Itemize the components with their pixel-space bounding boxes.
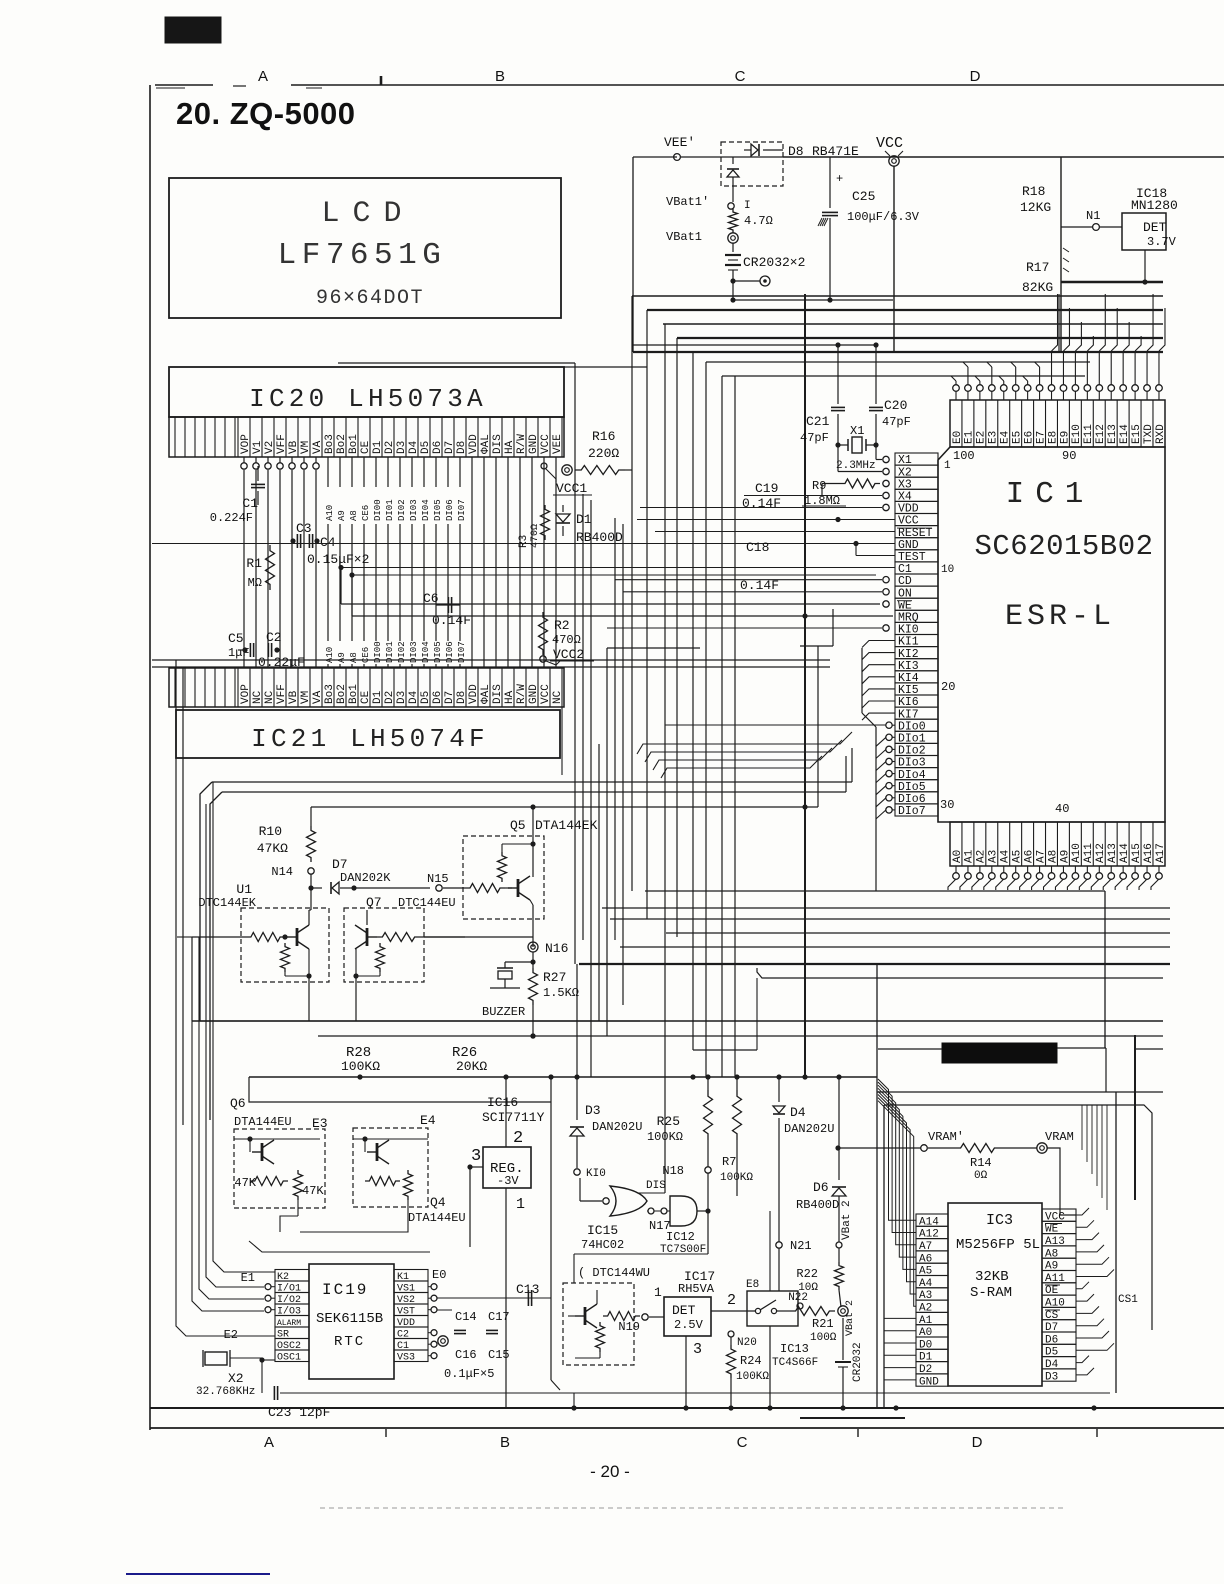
svg-text:0.22μF: 0.22μF [258, 655, 305, 670]
wire C13 riser [550, 1077, 552, 1380]
diode D1 RB400D [562, 505, 564, 512]
svg-text:0.15μF×2: 0.15μF×2 [307, 552, 369, 567]
svg-text:0.14F: 0.14F [432, 613, 471, 628]
svg-text:N1: N1 [1086, 209, 1100, 223]
svg-text:DAN202K: DAN202K [340, 871, 391, 885]
resistor R27 1.5Kohm [532, 962, 534, 968]
wire y363 feeder [338, 362, 575, 364]
svg-text:LF7651G: LF7651G [278, 238, 447, 273]
node VBat2 circle [836, 1242, 842, 1248]
svg-text:C16: C16 [455, 1348, 477, 1362]
svg-text:C14: C14 [455, 1310, 477, 1324]
wire TEST pin [855, 544, 857, 556]
svg-text:KI0: KI0 [586, 1168, 606, 1180]
real time clock IC19 SEK6115B body [309, 1264, 394, 1379]
svg-text:C25: C25 [852, 189, 875, 204]
svg-text:B: B [495, 68, 505, 85]
svg-text:VBat 2: VBat 2 [841, 1200, 853, 1240]
svg-text:DTC144EU: DTC144EU [398, 896, 456, 910]
svg-text:Q6: Q6 [230, 1096, 246, 1111]
svg-text:GND: GND [919, 1376, 939, 1388]
wire y648 jog [607, 647, 700, 649]
svg-text:4.7Ω: 4.7Ω [744, 214, 773, 228]
svg-text:96×64DOT: 96×64DOT [316, 287, 424, 310]
IC19 left pin boxes [275, 1270, 309, 1282]
svg-text:E1: E1 [241, 1271, 255, 1285]
svg-text:A10: A10 [325, 505, 335, 521]
IC1 top pin terminals [953, 385, 960, 392]
svg-text:DIo7: DIo7 [898, 805, 926, 818]
node N17 [648, 1208, 654, 1214]
svg-text:DIS: DIS [646, 1180, 666, 1192]
wire bold net vertical x805 [804, 294, 806, 1077]
capacitor C1 [257, 466, 259, 481]
svg-text:VRAM: VRAM [1045, 1130, 1074, 1144]
svg-text:82KG: 82KG [1022, 280, 1053, 295]
wire IC3 right pin feeders [1076, 1208, 1089, 1215]
svg-text:D3: D3 [1045, 1371, 1058, 1383]
wire top box bottom rail [633, 351, 1163, 353]
svg-text:100Ω: 100Ω [810, 1332, 837, 1344]
svg-text:220Ω: 220Ω [588, 446, 619, 461]
svg-text:C2: C2 [266, 630, 282, 645]
svg-text:32KB: 32KB [975, 1269, 1009, 1285]
svg-text:N14: N14 [271, 865, 293, 879]
wire main rail y1077 [249, 1076, 877, 1078]
wire vertical x1059 [1058, 294, 1060, 352]
wire bottom rail 2 bold [150, 1407, 1224, 1409]
svg-text:VBat 2: VBat 2 [845, 1300, 856, 1336]
svg-text:E2: E2 [224, 1328, 238, 1342]
svg-text:( DTC144WU: ( DTC144WU [578, 1266, 650, 1280]
svg-text:A8: A8 [349, 652, 359, 663]
svg-text:DET: DET [1143, 220, 1167, 235]
svg-text:IC1: IC1 [1006, 477, 1095, 512]
wire Q7 outputs [368, 936, 533, 938]
svg-text:C18: C18 [746, 540, 769, 555]
wire battery bottom [733, 299, 893, 301]
svg-text:R22: R22 [796, 1267, 818, 1281]
svg-text:R10: R10 [259, 824, 282, 839]
wire bottom of q-cluster [280, 1216, 298, 1232]
node N16 [528, 942, 538, 952]
wire A-bus horizontals below IC1 [602, 907, 1170, 909]
svg-text:47pF: 47pF [882, 415, 911, 429]
svg-text:R2: R2 [554, 618, 570, 633]
svg-text:DTA144EU: DTA144EU [234, 1115, 292, 1129]
net label VCC2 [540, 656, 546, 662]
svg-text:CR2032×2: CR2032×2 [743, 255, 805, 270]
svg-text:C3: C3 [296, 521, 312, 536]
wire KI pins staircase [861, 648, 863, 713]
node N18 [705, 1167, 711, 1173]
svg-text:VBat1': VBat1' [666, 195, 709, 209]
redaction bar [942, 1043, 1057, 1063]
svg-text:IC16: IC16 [487, 1095, 518, 1110]
svg-text:20KΩ: 20KΩ [456, 1059, 487, 1074]
wire DTC144WU collector [596, 1283, 598, 1290]
wire Q6 E-line [360, 1077, 430, 1092]
svg-text:DI03: DI03 [409, 499, 419, 521]
svg-text:M5256FP 5L: M5256FP 5L [956, 1237, 1040, 1253]
node N21 [776, 1242, 782, 1248]
svg-text:R16: R16 [592, 429, 615, 444]
svg-text:R3: R3 [518, 535, 530, 548]
svg-text:SC62015B02: SC62015B02 [974, 530, 1153, 563]
svg-text:D3: D3 [585, 1103, 601, 1118]
svg-text:470Ω: 470Ω [552, 633, 581, 647]
wire MRQ pin [574, 615, 576, 617]
memory IC3 M5256FP body [948, 1203, 1042, 1386]
svg-text:90: 90 [1062, 449, 1076, 463]
wire x833 corner [800, 645, 833, 647]
wire GND pin [152, 543, 895, 545]
svg-text:DTA144EK: DTA144EK [535, 818, 598, 833]
wire VDD pin [883, 504, 889, 510]
IC1 pin RESET overline [897, 527, 932, 529]
svg-text:A: A [258, 68, 268, 85]
svg-text:470Ω: 470Ω [530, 524, 541, 548]
bottom ruler line [150, 1427, 1224, 1429]
svg-text:DI06: DI06 [445, 499, 455, 521]
wire bus central verticals [631, 296, 633, 891]
IC1 left pin boxes [895, 453, 938, 465]
svg-text:C21: C21 [806, 414, 830, 429]
svg-text:A8: A8 [349, 510, 359, 521]
wire horizontal buses mid-left [341, 603, 880, 605]
svg-text:C5: C5 [228, 631, 244, 646]
svg-text:1: 1 [654, 1285, 662, 1300]
svg-text:D7: D7 [332, 857, 348, 872]
wire buzzer rail y1036 [530, 1033, 535, 1038]
wire into Q6 cluster [248, 1077, 250, 1090]
capacitor C21 47pF [837, 345, 839, 404]
svg-text:A9: A9 [337, 510, 347, 521]
svg-text:RH5VA: RH5VA [678, 1282, 715, 1296]
wire SRAM feeder bus [878, 1079, 916, 1220]
svg-text:TC4S66F: TC4S66F [772, 1357, 818, 1369]
LCD module LF7651G [169, 178, 561, 318]
svg-text:20. ZQ-5000: 20. ZQ-5000 [176, 96, 356, 131]
svg-text:R17: R17 [1026, 260, 1049, 275]
svg-text:D1: D1 [576, 512, 592, 527]
wire X1 pin [883, 456, 889, 462]
wire WE pin [883, 601, 889, 607]
IC3 left pin boxes [916, 1214, 948, 1226]
resistor R24 100Kohm [727, 1345, 736, 1378]
IC1 pin WE overline [897, 600, 912, 602]
wire C1 pin [341, 567, 895, 569]
wire X4 pin [883, 492, 889, 498]
svg-text:VEE': VEE' [664, 135, 695, 150]
svg-text:-3V: -3V [497, 1174, 519, 1188]
svg-text:1: 1 [516, 1196, 525, 1213]
svg-text:- 20 -: - 20 - [590, 1462, 630, 1481]
IC3 right pin boxes [1042, 1209, 1076, 1221]
gate IC15 74HC02 [610, 1186, 647, 1216]
svg-text:D: D [972, 1434, 983, 1451]
svg-text:C15: C15 [488, 1348, 510, 1362]
svg-text:2: 2 [727, 1292, 736, 1309]
svg-text:N15: N15 [427, 872, 449, 886]
IC1 bottom pin strip A0-A17 [950, 822, 1165, 866]
svg-text:LCD: LCD [321, 197, 414, 231]
svg-text:R27: R27 [543, 970, 566, 985]
svg-text:VCC1: VCC1 [556, 481, 587, 496]
wire rails above transistors [212, 781, 852, 783]
svg-text:CS1: CS1 [1118, 1294, 1138, 1306]
wire rail y1021 [200, 1020, 640, 1022]
svg-text:DI05: DI05 [433, 499, 443, 521]
buzzer BZ [505, 961, 533, 963]
svg-text:E4: E4 [420, 1113, 436, 1128]
IC21 pin strip [169, 668, 564, 707]
diode D8 RB471E dashed box [721, 142, 783, 186]
svg-text:C: C [735, 68, 746, 85]
svg-text:100KΩ: 100KΩ [341, 1059, 380, 1074]
svg-text:OSC1: OSC1 [277, 1353, 301, 1364]
svg-text:R18: R18 [1022, 184, 1045, 199]
svg-text:Q4: Q4 [430, 1195, 446, 1210]
svg-text:D: D [970, 68, 981, 85]
svg-text:R21: R21 [812, 1317, 834, 1331]
svg-text:12KG: 12KG [1020, 200, 1051, 215]
svg-text:DI01: DI01 [385, 499, 395, 521]
svg-text:DAN202U: DAN202U [784, 1122, 834, 1136]
resistor R2 470ohm [539, 612, 548, 655]
page corner black mark [165, 17, 221, 43]
svg-text:Q5: Q5 [510, 818, 526, 833]
ground terminal [760, 276, 770, 286]
svg-text:C: C [737, 1434, 748, 1451]
svg-text:DET: DET [672, 1303, 696, 1318]
svg-text:0.224F: 0.224F [210, 511, 253, 525]
gate IC12 TC7S00F [670, 1196, 697, 1226]
svg-text:R1: R1 [246, 556, 262, 571]
svg-text:DI07: DI07 [457, 499, 467, 521]
wire DIo0 long wire [665, 724, 886, 726]
wire divider vertical [1060, 157, 1062, 352]
footer scan artifact line [320, 1507, 1065, 1509]
capacitor C23 12pF [261, 1360, 263, 1393]
svg-text:C4: C4 [320, 535, 336, 550]
svg-text:N20: N20 [737, 1337, 757, 1349]
svg-text:DI04: DI04 [421, 499, 431, 521]
wire feeders into IC19 [213, 782, 275, 1272]
svg-text:2.5V: 2.5V [674, 1318, 704, 1332]
svg-text:47pF: 47pF [800, 431, 829, 445]
svg-text:SCI7711Y: SCI7711Y [482, 1110, 545, 1125]
svg-text:30: 30 [940, 798, 954, 812]
svg-text:MΩ: MΩ [248, 576, 262, 590]
svg-text:C19: C19 [755, 481, 778, 496]
svg-text:R7: R7 [722, 1155, 736, 1169]
wire VEE rail [783, 156, 1224, 158]
svg-text:+: + [836, 172, 843, 186]
svg-text:IC3: IC3 [986, 1212, 1013, 1229]
wire gate bottom return [574, 1253, 708, 1255]
svg-text:3: 3 [693, 1341, 702, 1358]
wire right verticals to IC3 [1081, 1105, 1083, 1150]
svg-text:3: 3 [471, 1147, 481, 1166]
resistor R3 470ohm [541, 505, 550, 540]
svg-text:R25: R25 [657, 1114, 680, 1129]
svg-text:100: 100 [953, 449, 975, 463]
svg-text:N16: N16 [545, 941, 568, 956]
svg-text:N21: N21 [790, 1239, 812, 1253]
svg-text:IC21 LH5074F: IC21 LH5074F [251, 724, 489, 754]
wire KI feeder horizontals [637, 732, 852, 754]
wire IC1 top pin feeders [955, 381, 957, 385]
svg-text:3.7V: 3.7V [1147, 235, 1177, 249]
wire right bus line y282 [1061, 281, 1163, 283]
svg-text:IC12: IC12 [666, 1230, 695, 1244]
top ruler line [155, 84, 213, 86]
wire DIo terminals [886, 722, 892, 728]
node N20 [728, 1331, 734, 1337]
svg-text:2.3MHz: 2.3MHz [836, 460, 876, 472]
svg-text:RB400D: RB400D [796, 1198, 839, 1212]
wire bold segment y1418 [800, 1417, 905, 1419]
resistor R14 0ohm [955, 1144, 1000, 1153]
svg-text:IC13: IC13 [780, 1342, 809, 1356]
svg-text:VRAM': VRAM' [928, 1130, 964, 1144]
svg-text:20: 20 [941, 680, 955, 694]
IC20 VCC pin terminal [541, 463, 547, 469]
svg-text:100KΩ: 100KΩ [647, 1130, 683, 1144]
svg-text:D4: D4 [790, 1105, 806, 1120]
svg-text:C1: C1 [242, 496, 258, 511]
svg-text:CR2032: CR2032 [852, 1342, 864, 1382]
svg-text:X1: X1 [850, 424, 864, 438]
left border line [149, 85, 151, 1430]
svg-text:DAN202U: DAN202U [592, 1120, 642, 1134]
svg-text:1.5KΩ: 1.5KΩ [543, 986, 579, 1000]
svg-text:2: 2 [513, 1129, 523, 1148]
svg-text:47K: 47K [302, 1184, 324, 1198]
svg-text:MN1280: MN1280 [1131, 198, 1178, 213]
svg-text:0.14F: 0.14F [742, 496, 781, 511]
svg-text:D6: D6 [813, 1180, 829, 1195]
tick marks bottom [385, 1429, 387, 1437]
svg-text:10: 10 [941, 564, 954, 576]
svg-text:32.768KHz: 32.768KHz [196, 1386, 255, 1398]
svg-text:A: A [264, 1434, 274, 1451]
svg-text:0Ω: 0Ω [974, 1170, 988, 1182]
wire collector rail [311, 806, 818, 808]
wire CD pin [883, 577, 889, 583]
svg-text:100μF/6.3V: 100μF/6.3V [847, 210, 920, 224]
IC20 pin terminals [243, 457, 245, 463]
svg-text:47KΩ: 47KΩ [257, 841, 288, 856]
net label VBat2 lower [838, 1306, 848, 1316]
wire NAND output to N18 branch [697, 1210, 708, 1212]
IC20 LH5073A body [169, 367, 564, 417]
wire top box left edge [632, 157, 634, 352]
svg-text:X2: X2 [228, 1371, 244, 1386]
IC19 right pin boxes [394, 1270, 428, 1282]
wire crystal top rail [633, 344, 876, 346]
wire RESET pin [655, 531, 895, 533]
resistor R21 100ohm [790, 1307, 835, 1316]
wire E2 feeder [176, 1100, 275, 1336]
svg-text:100KΩ: 100KΩ [736, 1371, 769, 1383]
svg-text:VS3: VS3 [397, 1353, 415, 1364]
wire rail y891 [645, 890, 1105, 892]
svg-text:A17: A17 [1155, 843, 1167, 863]
resistor R9 1.8Mohm [883, 480, 889, 486]
svg-text:E3: E3 [312, 1116, 328, 1131]
wire bold vertical x1135 [1134, 1035, 1136, 1200]
svg-text:IC20 LH5073A: IC20 LH5073A [249, 384, 487, 414]
svg-text:74HC02: 74HC02 [581, 1238, 624, 1252]
IC21 LH5074F body [176, 710, 560, 758]
wire IC21 NC stub [561, 707, 563, 775]
svg-text:CE6: CE6 [361, 505, 371, 521]
SRAM enclosure wires [876, 964, 878, 1408]
wire x818 riser [817, 646, 819, 807]
capacitor C20 47pF [875, 345, 877, 404]
svg-text:C17: C17 [488, 1310, 510, 1324]
wire ON pin [883, 589, 889, 595]
svg-text:RXD: RXD [1155, 424, 1167, 444]
svg-text:DTA144EU: DTA144EU [408, 1211, 466, 1225]
svg-text:1: 1 [944, 460, 951, 472]
svg-text:B: B [500, 1434, 510, 1451]
svg-text:0.1μF×5: 0.1μF×5 [444, 1367, 494, 1381]
battery CR2032x2 [732, 243, 734, 252]
svg-text:DI02: DI02 [397, 499, 407, 521]
resistor R1 [266, 545, 275, 590]
svg-text:IC15: IC15 [587, 1223, 618, 1238]
wire left wrap verticals [175, 660, 177, 1100]
svg-text:DTC144EK: DTC144EK [198, 896, 256, 910]
svg-text:RTC: RTC [334, 1334, 365, 1350]
svg-text:N18: N18 [662, 1164, 684, 1178]
wire IC3 left pin feeders [884, 1317, 916, 1319]
svg-text:DI00: DI00 [373, 499, 383, 521]
svg-text:E8: E8 [746, 1279, 759, 1291]
IC1 top pin strip E0-RXD [950, 400, 1165, 447]
wire bus IC20 to IC21 verticals [243, 470, 245, 668]
IC19 left pin terminals [265, 1284, 271, 1290]
svg-text:ESR-L: ESR-L [1005, 600, 1115, 634]
svg-text:N19: N19 [618, 1320, 640, 1334]
wire bus second bundle verticals [574, 363, 576, 964]
svg-text:U1: U1 [236, 882, 252, 897]
svg-text:R14: R14 [970, 1156, 992, 1170]
IC3 WE OE CS overlines [1045, 1223, 1062, 1225]
wire bottom verticals [573, 1393, 575, 1408]
wire IC19 right side [431, 1284, 437, 1290]
svg-text:C20: C20 [884, 398, 907, 413]
svg-text:SEK6115B: SEK6115B [316, 1311, 383, 1327]
IC1 bottom pin terminals [953, 873, 960, 880]
wire upper-left verticals [191, 937, 193, 1021]
wire VRAM rail [838, 1147, 921, 1149]
wire bus top band horizontals [632, 295, 1163, 297]
svg-text:E0: E0 [432, 1268, 446, 1282]
footer blue line [126, 1573, 270, 1575]
IC20 pin strip [169, 417, 564, 457]
svg-text:IC19: IC19 [322, 1281, 368, 1299]
svg-text:40: 40 [1055, 802, 1069, 816]
svg-text:R24: R24 [740, 1354, 762, 1368]
wire KI0 pin [883, 625, 889, 631]
svg-text:S-RAM: S-RAM [970, 1285, 1012, 1301]
tick mark top [380, 76, 383, 85]
svg-text:I: I [744, 200, 751, 212]
